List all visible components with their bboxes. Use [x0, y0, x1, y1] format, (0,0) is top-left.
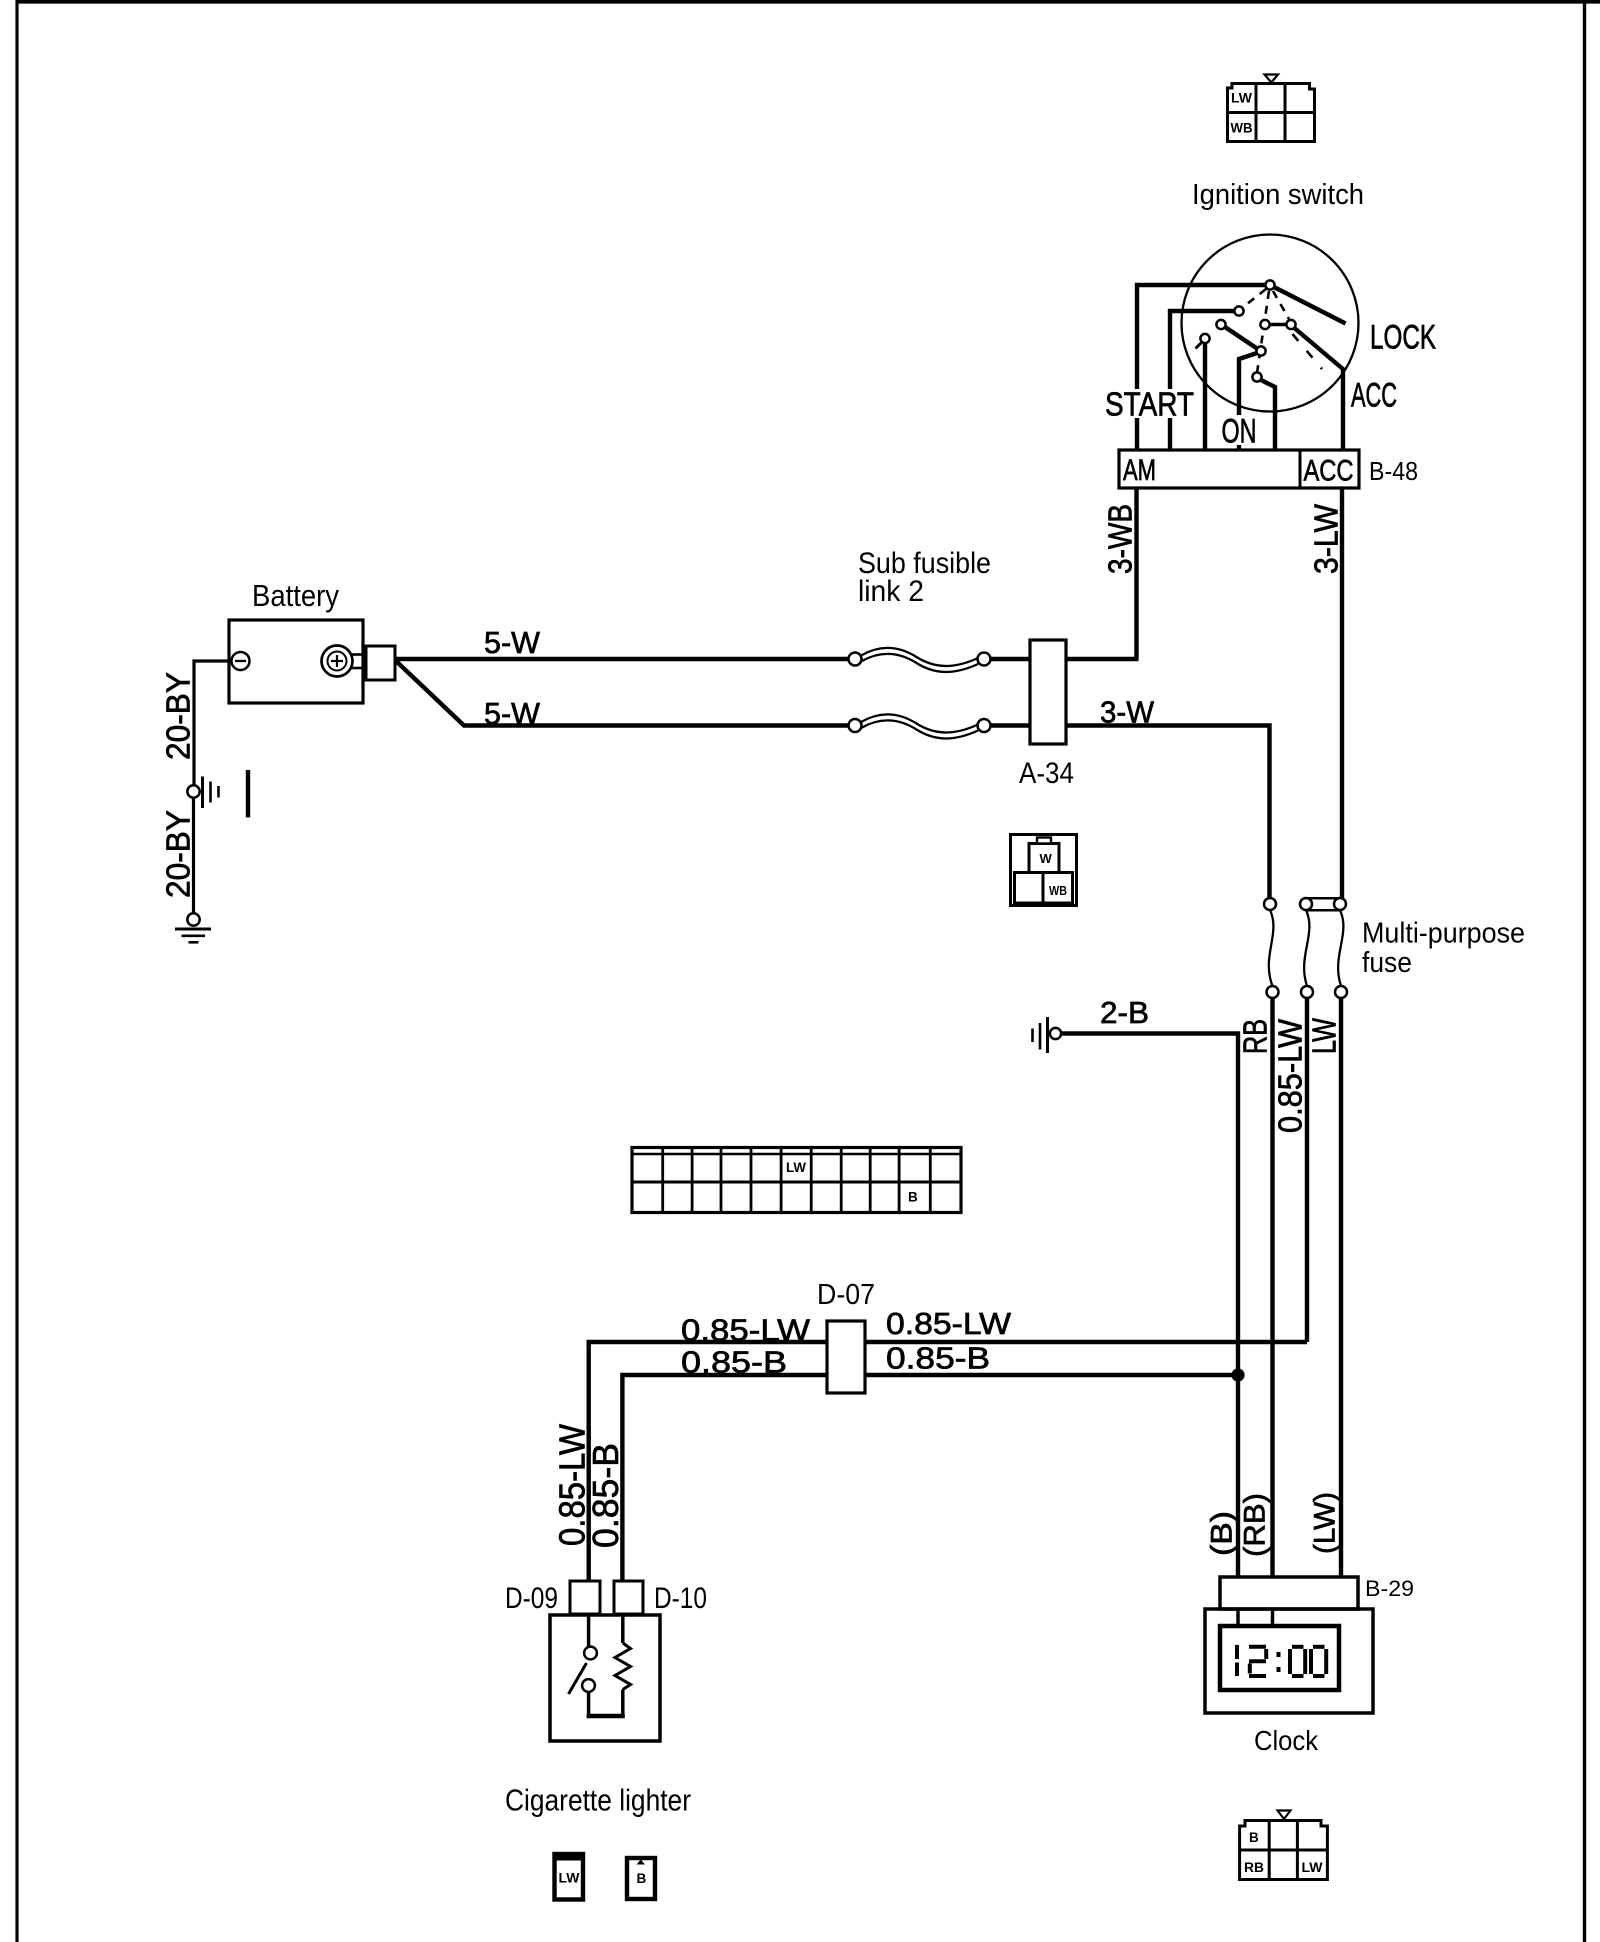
- stray frame bar: [246, 770, 250, 818]
- cigarette lighter body: [550, 1615, 660, 1741]
- svg-text:START: START: [1105, 386, 1194, 423]
- svg-text:Battery: Battery: [252, 578, 339, 613]
- wire: ACC line out of circle down to connector: [1341, 368, 1345, 450]
- clock stub wire B: [1236, 1609, 1240, 1626]
- multi-purpose fuse 3: [1338, 910, 1343, 986]
- svg-text:A-34: A-34: [1019, 757, 1074, 790]
- label START: [1102, 386, 1197, 423]
- svg-text:Clock: Clock: [1254, 1725, 1319, 1756]
- ground node 2-B: [1050, 1028, 1061, 1039]
- ignition switch circle: [1182, 235, 1359, 412]
- page border frame right: [1583, 0, 1586, 1942]
- label ON: [1219, 413, 1259, 451]
- connector A-34 pin-face view (W / WB cells): [1011, 835, 1077, 906]
- switch contact 3: [1216, 320, 1225, 329]
- clock stub wire RB: [1271, 1609, 1275, 1626]
- wire fuse to A-34 top: [990, 657, 1030, 661]
- wire fuse to A-34 bottom: [990, 723, 1030, 727]
- svg-text:(RB): (RB): [1239, 1493, 1272, 1557]
- svg-text:0.85-LW: 0.85-LW: [886, 1306, 1012, 1341]
- svg-text:fuse: fuse: [1362, 947, 1412, 979]
- fuse 3 terminals: [1334, 898, 1346, 910]
- clock display bezel: [1220, 1626, 1339, 1690]
- switch bar contact3 to contact7: [1222, 325, 1260, 351]
- wire 0.85-LW horizontal through D-07: [589, 1342, 1307, 1581]
- lighter switch upper contact: [584, 1647, 597, 1660]
- svg-text:2-B: 2-B: [1100, 995, 1149, 1030]
- svg-text:B-29: B-29: [1365, 1576, 1414, 1601]
- dashed pointer pivot to contact2: [1242, 289, 1266, 308]
- svg-text:Cigarette lighter: Cigarette lighter: [505, 1783, 691, 1818]
- wire from battery negative to ground: [194, 661, 229, 786]
- ground node bottom: [187, 913, 199, 925]
- wire A-34 to 3-WB corner: [1066, 657, 1139, 661]
- wire: ON contact elbow down to connector: [1239, 353, 1259, 451]
- wire 0.85-LW from fuse 2 down to D-07 row: [1305, 998, 1309, 1342]
- connector D-09 pin-face view (LW cell): [555, 1854, 584, 1900]
- connector D-10 body: [614, 1581, 643, 1614]
- switch contact 7 (ON): [1256, 346, 1265, 355]
- svg-text:W: W: [1040, 851, 1053, 866]
- svg-text:ACC: ACC: [1304, 455, 1354, 488]
- connector D-07 body: [827, 1321, 865, 1393]
- switch bar contact5 to contact6: [1265, 323, 1291, 327]
- connector D-09 body: [570, 1581, 600, 1614]
- fusible link 2 (bottom): [861, 714, 978, 732]
- joint connector strip: [632, 1148, 961, 1213]
- ground node on battery earth wire: [187, 785, 199, 797]
- wire: lower contact elbow down to connector: [1260, 380, 1275, 451]
- connector B-29 pin-face view (B / RB / LW cells): [1240, 1821, 1328, 1880]
- svg-text:D-07: D-07: [817, 1279, 875, 1311]
- svg-text:LW: LW: [1231, 91, 1252, 106]
- svg-text:WB: WB: [1231, 121, 1253, 136]
- battery positive terminal: [322, 646, 353, 677]
- svg-text:0.85-B: 0.85-B: [886, 1341, 990, 1376]
- svg-text:0.85-LW: 0.85-LW: [1272, 1018, 1309, 1133]
- svg-text:D-09: D-09: [505, 1582, 558, 1615]
- svg-text:B: B: [637, 1871, 647, 1886]
- svg-text:20-BY: 20-BY: [160, 672, 197, 760]
- svg-text:5-W: 5-W: [484, 625, 541, 660]
- lighter element feed wire: [621, 1614, 625, 1643]
- connector B-48 pin-face view (grid with LW / WB cells): [1228, 84, 1315, 142]
- switch contact 8: [1252, 372, 1261, 381]
- sideways ground symbol: [201, 777, 204, 809]
- fuse top bus bars: [1306, 897, 1340, 900]
- page border frame top: [16, 0, 1600, 4]
- svg-text:3-WB: 3-WB: [1102, 504, 1139, 574]
- svg-text:LOCK: LOCK: [1370, 319, 1436, 357]
- wire: contact to second column: [1170, 311, 1239, 450]
- switch rotor arm (LOCK pointer): [1271, 286, 1346, 324]
- svg-text:LW: LW: [786, 1160, 806, 1175]
- triangle index mark on B-29 pin-face: [1278, 1811, 1291, 1820]
- battery negative terminal: [232, 652, 250, 670]
- clock body: [1205, 1609, 1373, 1713]
- lighter bottom link wire: [587, 1714, 625, 1719]
- svg-text:0.85-B: 0.85-B: [585, 1443, 626, 1548]
- wire battery positive top 5-W: [395, 657, 849, 661]
- svg-text:B: B: [908, 1190, 918, 1205]
- lighter element lower wire: [621, 1690, 625, 1718]
- triangle index mark on D-10 pin-face: [637, 1860, 646, 1865]
- junction dot B wires: [1231, 1368, 1244, 1381]
- svg-text:B: B: [1249, 1830, 1259, 1845]
- page border frame left: [15, 0, 18, 1942]
- clock digits 12:00: [1237, 1645, 1326, 1676]
- wire 3-LW from B-48 down to fuse block: [1340, 488, 1344, 899]
- dashed pointer from contact6 down right: [1293, 334, 1323, 369]
- svg-text:3-W: 3-W: [1100, 695, 1155, 730]
- chassis ground symbol: [175, 928, 211, 931]
- svg-text:3-LW: 3-LW: [1308, 503, 1345, 574]
- fusible link 1 (top): [861, 648, 978, 666]
- svg-text:RB: RB: [1237, 1019, 1274, 1054]
- wire: contact 4 down to connector: [1203, 341, 1207, 450]
- ground symbol for 2-B wire: [1046, 1017, 1049, 1053]
- svg-text:(LW): (LW): [1309, 1492, 1342, 1554]
- wire 0.85-B horizontal through D-07: [622, 1375, 1238, 1581]
- dashed pointer pivot through contacts 5 7 8: [1257, 291, 1269, 373]
- wire battery positive diagonal to lower 5-W: [396, 661, 849, 726]
- triangle index mark on pin-face connector: [1265, 75, 1279, 83]
- svg-text:ON: ON: [1222, 413, 1257, 451]
- svg-text:LW: LW: [1302, 1860, 1323, 1875]
- switch pivot contact: [1265, 280, 1274, 289]
- multi-purpose fuse 1: [1269, 910, 1274, 986]
- lighter switch lower contact: [582, 1679, 595, 1692]
- switch contact 5: [1260, 320, 1269, 329]
- contact 4 tail stroke: [1196, 341, 1204, 349]
- battery terminal links: [352, 653, 367, 656]
- connector A-34 body: [1030, 640, 1066, 744]
- switch contact 2: [1234, 306, 1243, 315]
- svg-text:Multi-purpose: Multi-purpose: [1362, 918, 1525, 950]
- lighter switch arm: [569, 1663, 587, 1694]
- svg-text:5-W: 5-W: [484, 696, 541, 731]
- lighter switch feed wire: [587, 1615, 591, 1647]
- switch contact 4: [1200, 334, 1209, 343]
- svg-text:(B): (B): [1206, 1511, 1239, 1556]
- svg-text:D-10: D-10: [654, 1582, 707, 1615]
- wire: pivot to START column: [1137, 285, 1270, 450]
- battery output tab: [366, 646, 395, 680]
- svg-text:link 2: link 2: [858, 575, 924, 608]
- wire 3-WB from B-48 down to A-34: [1134, 488, 1138, 659]
- svg-text:B-48: B-48: [1369, 456, 1418, 486]
- wire 20-BY lower segment: [192, 798, 195, 914]
- switch bar contact6 to ACC corner: [1292, 326, 1344, 370]
- svg-text:WB: WB: [1049, 883, 1067, 898]
- svg-text:Ignition switch: Ignition switch: [1192, 179, 1364, 211]
- connector D-10 pin-face view (B cell): [627, 1858, 655, 1899]
- svg-text:RB: RB: [1244, 1860, 1264, 1875]
- wire 2-B from ground to junction: [1061, 1034, 1238, 1578]
- connector B-48 ACC cell divider: [1299, 450, 1302, 488]
- connector B-48 body: [1119, 450, 1359, 488]
- fuse 2 terminals: [1300, 898, 1312, 910]
- connector B-29 body: [1220, 1577, 1358, 1609]
- switch contact 6: [1286, 320, 1295, 329]
- svg-text:AM: AM: [1123, 454, 1156, 487]
- svg-text:LW: LW: [559, 1871, 580, 1886]
- lighter heating element (resistor): [615, 1643, 631, 1690]
- battery body: [229, 620, 363, 703]
- lighter switch lower wire: [587, 1692, 591, 1718]
- svg-text:0.85-LW: 0.85-LW: [681, 1313, 811, 1348]
- wire LW from fuse 3 down to B-29: [1339, 998, 1343, 1577]
- svg-text:20-BY: 20-BY: [160, 810, 197, 898]
- svg-text:LW: LW: [1306, 1017, 1343, 1054]
- svg-text:0.85-B: 0.85-B: [681, 1345, 787, 1380]
- wire 3-W from A-34 right then down to fuse 1: [1066, 726, 1270, 900]
- wire RB from fuse 1 down to B-29: [1270, 998, 1274, 1577]
- svg-text:ACC: ACC: [1351, 377, 1397, 415]
- dashed pointer pivot to contact6: [1273, 291, 1289, 319]
- multi-purpose fuse 2: [1304, 910, 1309, 986]
